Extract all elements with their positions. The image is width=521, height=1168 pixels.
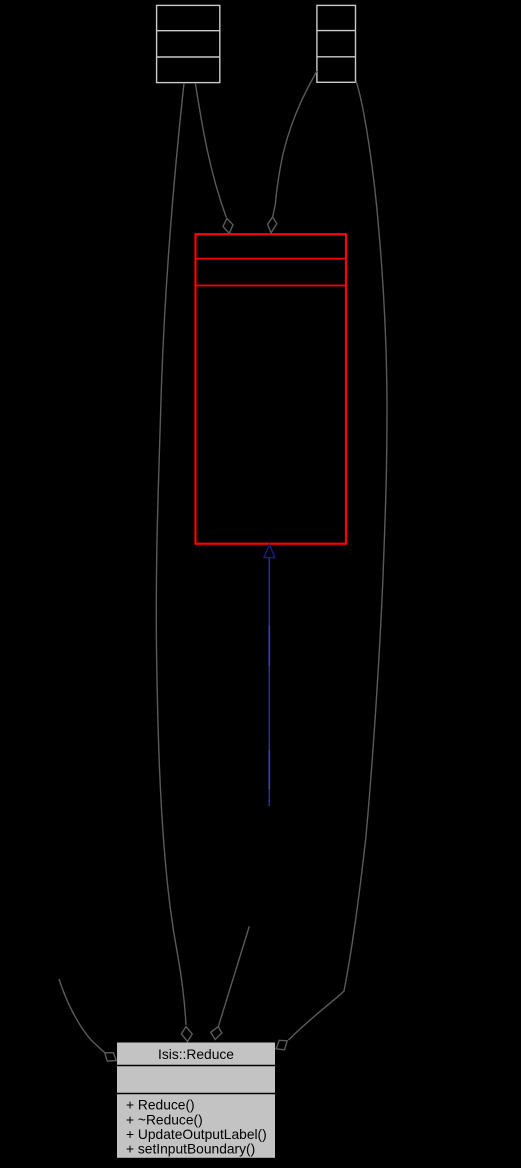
- inheritance edge (blue) from below up to red node: [268, 558, 270, 806]
- aggregation diamond at left edge of Isis::Reduce: [105, 1053, 116, 1061]
- aggregation diamond at top of red node (left): [223, 218, 233, 233]
- edge E5: partial curve bottom-left to Isis::Reduce: [59, 979, 105, 1053]
- edge E1: box A to Isis::Reduce (long left curve): [156, 83, 186, 1025]
- inheritance edge brighter overlap segments: [268, 626, 270, 666]
- edge E4: box B to Isis::Reduce (long right curve): [289, 81, 388, 1040]
- edge E2: box A to red node: [195, 83, 226, 218]
- svg-text:Isis::Reduce: Isis::Reduce: [158, 1047, 234, 1062]
- svg-text:+ ~Reduce(): + ~Reduce(): [126, 1112, 203, 1127]
- edge E6: partial line to Isis::Reduce top (right diamond): [218, 926, 249, 1026]
- aggregation diamond at top of red node (right): [268, 217, 277, 233]
- aggregation diamond at top of Isis::Reduce (right): [211, 1027, 222, 1040]
- aggregation diamond at top of Isis::Reduce (left): [181, 1027, 192, 1042]
- svg-text:+ Reduce(): + Reduce(): [126, 1098, 195, 1113]
- aggregation diamond at right edge of Isis::Reduce: [276, 1040, 287, 1050]
- class node box A (top-left, 3 compartments): [157, 5, 220, 82]
- edge E3: box B to red node: [273, 71, 317, 217]
- inheritance hollow triangle arrowhead: [264, 545, 275, 558]
- red class node (center, truncated, 3 compartments): [196, 234, 347, 544]
- class node box B (top-right, 3 compartments): [317, 5, 356, 82]
- class node Isis::Reduce (bottom, grey filled): [117, 1043, 275, 1158]
- svg-text:+ UpdateOutputLabel(): + UpdateOutputLabel(): [126, 1127, 267, 1142]
- svg-text:+ setInputBoundary(): + setInputBoundary(): [126, 1142, 255, 1157]
